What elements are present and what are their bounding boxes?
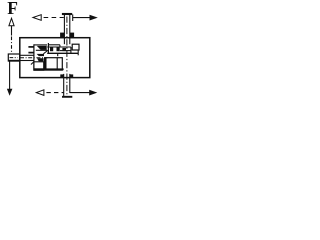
top shaft bbox=[63, 15, 65, 44]
bevel gear top edge bbox=[34, 44, 47, 46]
nut bar right tick bbox=[70, 47, 72, 53]
bottom-left dashed arrow (open head) bbox=[36, 90, 44, 96]
force arrow down (solid) bbox=[9, 61, 11, 89]
plate right tick bbox=[77, 50, 79, 55]
block bottom fill bbox=[45, 68, 64, 70]
bottom shaft bbox=[63, 74, 65, 96]
block divider bbox=[56, 58, 58, 70]
shaft centerline (outside) bbox=[10, 57, 18, 59]
handle end tick bbox=[72, 14, 74, 21]
lower-left diagonal bbox=[31, 62, 34, 65]
top gland blocks bbox=[60, 33, 64, 38]
nut bar right-section bottom bbox=[60, 50, 71, 52]
dash-dot tail of up arrow bbox=[11, 37, 13, 55]
plate small tick bbox=[57, 54, 59, 56]
gear dark band lower-mesh bbox=[37, 58, 44, 61]
svg-text:F: F bbox=[7, 0, 18, 18]
input shaft block thick bottom edge bbox=[8, 60, 20, 62]
middle bottom block bbox=[45, 58, 63, 70]
mesh vertical bbox=[47, 43, 49, 54]
nut bar top edge bbox=[47, 46, 71, 48]
bearing hatch left of bevel gear bbox=[28, 46, 33, 48]
nut bar dark segment 2 bbox=[57, 47, 60, 51]
bevel gear left face bbox=[33, 44, 35, 70]
lower bevel gear fill bar bbox=[34, 68, 44, 70]
nut bar dark segment 3 bbox=[62, 48, 66, 51]
bottom shaft cap bbox=[62, 96, 72, 98]
top-left dashed arrow (open head) bbox=[33, 15, 41, 21]
screw axis centerline bbox=[66, 17, 68, 97]
housing box bbox=[20, 38, 90, 78]
line under upper gear bbox=[36, 49, 47, 51]
top-right force arrow (solid) bbox=[73, 17, 91, 19]
input shaft centerline inside bbox=[20, 57, 48, 59]
gear dark band upper-mesh bbox=[37, 54, 44, 56]
block thick left edge bbox=[45, 58, 47, 70]
force arrow up (open head) bbox=[9, 18, 14, 25]
nut bar upper step bbox=[48, 44, 60, 46]
bottom-right force arrow (solid) bbox=[70, 92, 90, 94]
top shaft cap bbox=[62, 13, 72, 15]
nut bar step right edge bbox=[59, 45, 61, 47]
lower bevel gear outline bbox=[34, 62, 44, 71]
plate line bbox=[47, 52, 78, 54]
input shaft end block bbox=[8, 54, 19, 61]
nut bar dark segment 1 bbox=[50, 47, 53, 51]
bevel gear mesh fill (upper) bbox=[37, 46, 47, 50]
bottom gland blocks bbox=[60, 74, 63, 77]
small rect right of nut bar bbox=[72, 44, 79, 50]
mesh diagonal bbox=[43, 50, 48, 54]
input shaft inside housing bbox=[20, 54, 34, 56]
